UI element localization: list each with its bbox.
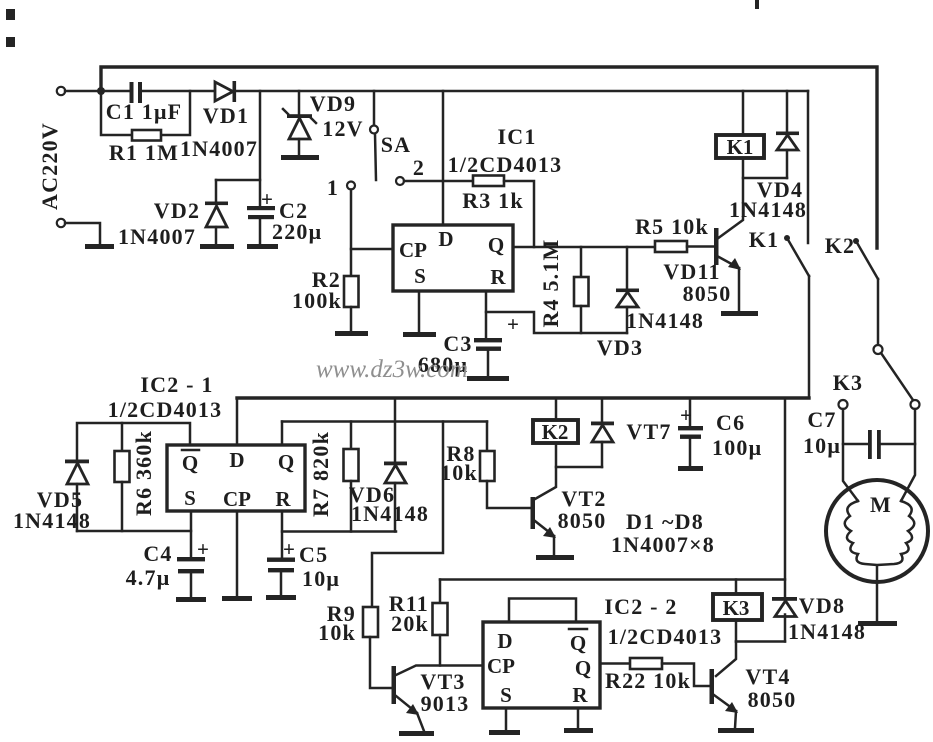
pin D of IC2-1 xyxy=(229,448,244,472)
svg-text:8050: 8050 xyxy=(683,281,732,306)
svg-text:C6: C6 xyxy=(716,410,745,435)
wire Qbar net of IC2-1 xyxy=(77,423,190,461)
svg-text:IC2 - 1: IC2 - 1 xyxy=(140,372,213,397)
svg-text:Q: Q xyxy=(488,233,504,257)
scan mark top-left 2 xyxy=(6,37,15,47)
switch K1 blade xyxy=(784,235,809,398)
label VD2 xyxy=(154,198,200,223)
capacitor C5 xyxy=(267,558,295,596)
resistor R6 xyxy=(115,423,130,531)
svg-text:D: D xyxy=(497,629,512,653)
svg-text:K3: K3 xyxy=(833,370,864,395)
label R2 100k xyxy=(292,267,342,313)
label 9013 xyxy=(421,691,470,716)
svg-text:10k: 10k xyxy=(318,620,356,645)
pin D of IC1 xyxy=(438,227,453,251)
wire D to Qbar jumper of IC2-2 xyxy=(509,599,576,623)
label C1 1uF xyxy=(106,99,183,124)
switch K1 fixed wire xyxy=(807,91,810,243)
resistor R5 xyxy=(655,241,714,252)
label 1/2CD4013 of IC2-1 xyxy=(108,397,223,422)
svg-text:100k: 100k xyxy=(292,288,342,313)
ground under C6 xyxy=(678,466,703,471)
ground under R of IC2-2 xyxy=(564,728,593,733)
svg-text:C1 1μF: C1 1μF xyxy=(106,99,183,124)
label C3 xyxy=(443,331,472,356)
svg-text:1N4148: 1N4148 xyxy=(788,619,866,644)
label 1N4148 for VD8 xyxy=(788,619,866,644)
label C6 100u xyxy=(712,410,762,460)
svg-text:1N4148: 1N4148 xyxy=(626,308,704,333)
motor M circle xyxy=(826,480,928,582)
svg-text:8050: 8050 xyxy=(748,687,797,712)
label + of C6 xyxy=(680,403,692,427)
ground under C5 xyxy=(266,595,296,600)
label IC1 xyxy=(497,124,536,149)
svg-text:220μ: 220μ xyxy=(272,219,322,244)
wire R pin of IC1 to C3 and R4 bottom xyxy=(486,291,627,338)
diode VD7 xyxy=(591,398,614,467)
label R7 820k xyxy=(308,431,333,517)
diode VD2 xyxy=(205,180,228,244)
svg-text:8050: 8050 xyxy=(558,508,607,533)
ground under motor xyxy=(858,621,897,626)
pin CP of IC1 xyxy=(399,238,427,262)
svg-text:R6 360k: R6 360k xyxy=(131,430,156,516)
wire K3 right contact to motor xyxy=(901,409,915,501)
svg-text:+: + xyxy=(507,312,519,336)
transistor VT3 emitter with arrow xyxy=(396,696,424,731)
label C4 xyxy=(143,541,172,566)
label 1N4148 for VD3 xyxy=(626,308,704,333)
label R6 360k xyxy=(131,430,156,516)
label 1N4148 for VD6 xyxy=(351,501,429,526)
resistor R3 xyxy=(473,176,504,187)
zener diode VD9 xyxy=(283,91,316,155)
label 1N4148 for VD5 xyxy=(13,508,91,533)
flip-flop IC2-2 box xyxy=(483,622,600,708)
svg-text:1N4007×8: 1N4007×8 xyxy=(611,532,715,557)
capacitor C2 xyxy=(247,180,275,244)
svg-text:10k: 10k xyxy=(440,460,478,485)
label VD4 xyxy=(757,177,803,202)
diode VD6 xyxy=(384,398,407,532)
watermark www.dz3w.com xyxy=(316,356,468,383)
transistor VT2 base bar xyxy=(531,497,536,529)
wire K1 coil bottom to VD4 xyxy=(743,177,787,180)
svg-text:CP: CP xyxy=(399,238,427,262)
transistor VT4 emitter with arrow xyxy=(714,695,738,728)
svg-text:Q: Q xyxy=(182,451,198,475)
label VT7 xyxy=(626,419,671,444)
label R11 20k xyxy=(389,591,429,636)
ground under S of IC2-2 xyxy=(489,730,520,735)
label + of C4 xyxy=(197,537,209,561)
pin Q of IC2-1 xyxy=(278,450,294,474)
ground under VD9 xyxy=(281,155,319,160)
diode VD5 xyxy=(65,460,89,532)
node pivot of K3 selector xyxy=(874,345,883,354)
label 10u for C7 xyxy=(803,433,841,458)
svg-text:1N4007: 1N4007 xyxy=(118,224,196,249)
wire S pin of IC1 to ground xyxy=(418,291,421,332)
svg-text:+: + xyxy=(680,403,692,427)
wire top AC rail xyxy=(101,67,877,248)
svg-text:VT7: VT7 xyxy=(626,419,671,444)
wire S net of IC2-1 xyxy=(77,511,191,557)
node junction at live input xyxy=(97,87,105,95)
svg-text:CP: CP xyxy=(223,487,251,511)
svg-text:20k: 20k xyxy=(391,611,429,636)
svg-text:S: S xyxy=(184,486,196,510)
pin R of IC2-2 xyxy=(572,683,588,707)
label + of C3 xyxy=(507,312,519,336)
svg-text:Q: Q xyxy=(575,656,591,680)
resistor R8 xyxy=(480,422,531,509)
label 8050 for VT2 xyxy=(558,508,607,533)
transistor VT3 collector xyxy=(396,666,483,676)
label VD11 xyxy=(663,259,720,284)
wire contact1 to CP and R2 xyxy=(351,190,393,277)
pin CP of IC2-2 xyxy=(487,654,515,678)
svg-text:VD9: VD9 xyxy=(310,91,356,116)
wire CP pin of IC2-1 to ground xyxy=(236,511,239,596)
pin S of IC2-1 xyxy=(184,486,196,510)
wire K3 coil supply line xyxy=(440,398,785,598)
capacitor C3 xyxy=(474,338,502,376)
svg-text:1/2CD4013: 1/2CD4013 xyxy=(108,397,223,422)
label VT2 xyxy=(561,486,606,511)
ground under C2 xyxy=(247,244,278,249)
svg-text:VT4: VT4 xyxy=(745,664,790,689)
capacitor C1 xyxy=(130,82,216,103)
label K3 switch xyxy=(833,370,864,395)
resistor R7 xyxy=(344,422,359,532)
svg-text:SA: SA xyxy=(381,132,412,157)
svg-text:1N4148: 1N4148 xyxy=(729,197,807,222)
svg-text:1N4148: 1N4148 xyxy=(351,501,429,526)
label IC2-2 xyxy=(604,594,677,619)
capacitor C7 xyxy=(843,430,915,459)
svg-text:1/2CD4013: 1/2CD4013 xyxy=(608,624,723,649)
terminal N (AC neutral input) xyxy=(57,219,65,227)
label 1/2CD4013 of IC2-2 xyxy=(608,624,723,649)
label D1~D8 xyxy=(626,509,704,534)
capacitor C6 xyxy=(678,398,703,466)
wire N terminal to ground xyxy=(65,223,100,244)
wire switched +12V rail xyxy=(237,396,809,399)
label 12V xyxy=(322,116,364,141)
motor winding xyxy=(845,501,915,565)
pin S of IC2-2 xyxy=(500,683,512,707)
svg-text:R1 1M: R1 1M xyxy=(109,140,179,165)
label 1N4148 for VD4 xyxy=(729,197,807,222)
svg-text:www.dz3w.com: www.dz3w.com xyxy=(316,356,468,383)
ground under C3 xyxy=(467,376,509,381)
svg-text:1: 1 xyxy=(327,175,339,200)
svg-text:C5: C5 xyxy=(299,542,328,567)
contact 1 of SA xyxy=(347,182,355,190)
wire R1 branch xyxy=(101,91,190,135)
wire K3 left contact to motor xyxy=(843,409,858,501)
resistor R2 xyxy=(344,276,359,331)
svg-text:1N4148: 1N4148 xyxy=(13,508,91,533)
relay coil K1 xyxy=(716,91,764,159)
svg-text:9013: 9013 xyxy=(421,691,470,716)
label + of C2 xyxy=(261,187,273,211)
svg-text:4.7μ: 4.7μ xyxy=(126,565,171,590)
ground under C4 xyxy=(176,597,206,602)
label AC220V xyxy=(37,122,62,210)
ground under VD2 xyxy=(200,244,234,249)
svg-text:R: R xyxy=(275,487,291,511)
scan mark top-left 1 xyxy=(6,9,15,20)
label 2 xyxy=(413,155,425,180)
resistor R1 xyxy=(132,130,161,141)
ground under R2 xyxy=(335,331,368,336)
wire R3 to Q node xyxy=(504,181,534,247)
svg-text:10μ: 10μ xyxy=(803,433,841,458)
svg-text:VD8: VD8 xyxy=(799,593,845,618)
svg-text:+: + xyxy=(197,537,209,561)
label R22 10k xyxy=(605,668,691,693)
scan mark top edge xyxy=(755,0,759,9)
svg-text:K2: K2 xyxy=(542,420,569,444)
label R3 1k xyxy=(462,188,524,213)
contact 2 of SA xyxy=(396,177,404,185)
ground under CP of IC2-1 xyxy=(222,596,252,601)
svg-text:R7 820k: R7 820k xyxy=(308,431,333,517)
label 8050 for VT4 xyxy=(748,687,797,712)
svg-text:Q: Q xyxy=(278,450,294,474)
label 1N4007 for VD2 xyxy=(118,224,196,249)
pin S of IC1 xyxy=(414,264,426,288)
svg-text:K1: K1 xyxy=(727,135,754,159)
transistor VT2 emitter with arrow xyxy=(535,521,556,555)
ground under VT3 xyxy=(399,731,434,736)
label 8050 for VT1 xyxy=(683,281,732,306)
contact K3 right xyxy=(911,400,920,409)
label VD8 xyxy=(799,593,845,618)
svg-text:CP: CP xyxy=(487,654,515,678)
relay coil K3 xyxy=(713,580,762,621)
ground under VT4 xyxy=(718,728,754,733)
label VD5 xyxy=(37,487,83,512)
pin R of IC1 xyxy=(490,265,506,289)
svg-text:VD1: VD1 xyxy=(203,103,249,128)
svg-text:K3: K3 xyxy=(723,596,750,620)
svg-text:R3 1k: R3 1k xyxy=(462,188,524,213)
label C2 220u xyxy=(272,198,322,244)
label R9 10k xyxy=(318,601,356,645)
pin Qbar of IC2-2 xyxy=(569,629,587,655)
transistor VT1 base bar xyxy=(714,228,719,265)
label R5 10k xyxy=(635,214,709,239)
resistor R9 xyxy=(363,607,392,688)
svg-text:R22 10k: R22 10k xyxy=(605,668,691,693)
wire K3 coil bottom to VT4 collector xyxy=(716,620,785,676)
terminal L (AC live input) xyxy=(57,87,65,95)
svg-text:Q: Q xyxy=(570,631,586,655)
switch SA pole xyxy=(370,91,378,180)
pin Q of IC1 xyxy=(488,233,504,257)
label VT3 xyxy=(420,669,465,694)
label C7 xyxy=(807,407,836,432)
svg-text:R: R xyxy=(572,683,588,707)
switch K3 blade xyxy=(881,353,913,400)
flip-flop IC2-1 box xyxy=(167,445,305,511)
wire R pin of IC2-2 to ground xyxy=(577,708,580,728)
wire S pin of IC2-2 to ground xyxy=(505,708,508,730)
op-amp/flipflop IC1 box xyxy=(393,225,513,291)
wire D pin of IC1 to +12V xyxy=(442,91,445,225)
svg-text:+: + xyxy=(261,187,273,211)
label SA xyxy=(381,132,412,157)
label R1 1M xyxy=(109,140,179,165)
label IC2-1 xyxy=(140,372,213,397)
svg-text:R4 5.1M: R4 5.1M xyxy=(538,238,563,327)
svg-text:S: S xyxy=(414,264,426,288)
label R4 5.1M xyxy=(538,238,563,327)
svg-text:100μ: 100μ xyxy=(712,435,762,460)
wire L terminal to junction xyxy=(65,90,131,93)
resistor R22 xyxy=(600,658,709,686)
wire motor to ground xyxy=(876,566,879,621)
wire D pin of IC2-1 to rail xyxy=(236,398,239,445)
transistor VT3 base bar xyxy=(392,666,397,704)
svg-text:S: S xyxy=(500,683,512,707)
label 1N4007x8 xyxy=(611,532,715,557)
switch K2 blade xyxy=(853,238,878,345)
label VD9 xyxy=(310,91,356,116)
wire Q output line of IC2-1 xyxy=(282,422,487,446)
svg-text:C4: C4 xyxy=(143,541,172,566)
transistor VT4 base bar xyxy=(710,669,715,704)
diode VD8 xyxy=(772,597,797,642)
resistor R4 xyxy=(574,247,589,333)
contact K3 left xyxy=(839,400,848,409)
pin D of IC2-2 xyxy=(497,629,512,653)
svg-text:C7: C7 xyxy=(807,407,836,432)
label 10u for C5 xyxy=(302,566,340,591)
label VD6 xyxy=(349,482,395,507)
svg-text:10μ: 10μ xyxy=(302,566,340,591)
label 1N4007 for VD1 xyxy=(180,136,258,161)
label M xyxy=(870,492,892,517)
wire K2 coil bottom to VT2 collector xyxy=(535,443,602,499)
wire rectifier branch down xyxy=(216,91,260,180)
wire +12V bus y91 xyxy=(236,90,808,93)
label 4.7u xyxy=(126,565,171,590)
transistor VT1 collector xyxy=(717,158,743,239)
label 680u xyxy=(418,352,468,377)
label 1 xyxy=(327,175,339,200)
svg-text:IC2 - 2: IC2 - 2 xyxy=(604,594,677,619)
svg-text:12V: 12V xyxy=(322,116,364,141)
svg-text:IC1: IC1 xyxy=(497,124,536,149)
ground under VT2 xyxy=(536,555,574,560)
diode VD3 xyxy=(616,247,639,333)
transistor VT1 emitter with arrow xyxy=(717,256,741,311)
svg-text:R: R xyxy=(490,265,506,289)
svg-text:K1: K1 xyxy=(749,227,780,252)
svg-text:1N4007: 1N4007 xyxy=(180,136,258,161)
label K1 switch xyxy=(749,227,780,252)
pin R of IC2-1 xyxy=(275,487,291,511)
svg-text:1/2CD4013: 1/2CD4013 xyxy=(448,152,563,177)
relay coil K2 xyxy=(533,398,578,444)
label VD3 xyxy=(597,335,643,360)
pin Q of IC2-2 xyxy=(575,656,591,680)
resistor R11 xyxy=(433,580,448,666)
svg-text:M: M xyxy=(870,492,892,517)
svg-text:2: 2 xyxy=(413,155,425,180)
svg-text:VD3: VD3 xyxy=(597,335,643,360)
wire Q of IC2-1 down to R9 xyxy=(372,422,443,608)
svg-text:K2: K2 xyxy=(825,233,856,258)
svg-text:R5 10k: R5 10k xyxy=(635,214,709,239)
svg-text:D: D xyxy=(229,448,244,472)
label VT4 xyxy=(745,664,790,689)
label K2 switch xyxy=(825,233,856,258)
svg-text:D: D xyxy=(438,227,453,251)
ground under VT1 xyxy=(721,311,758,316)
wire R pin of IC2-1 and C5 xyxy=(282,511,396,558)
wire Q output of IC1 xyxy=(513,246,655,249)
pin CP of IC2-1 xyxy=(223,487,251,511)
label 1/2CD4013 of IC1 xyxy=(448,152,563,177)
diode VD4 xyxy=(776,91,799,178)
ground under S of IC1 xyxy=(403,332,436,337)
label R8 xyxy=(440,441,478,485)
capacitor C4 xyxy=(177,557,205,597)
label +C5 xyxy=(283,537,328,567)
wire contact2 to R3 xyxy=(404,180,473,183)
pin Qbar of IC2-1 xyxy=(182,450,199,475)
ground under N terminal xyxy=(85,244,114,249)
svg-text:D1 ~D8: D1 ~D8 xyxy=(626,509,704,534)
label VD1 xyxy=(203,103,249,128)
svg-text:VD2: VD2 xyxy=(154,198,200,223)
svg-text:+: + xyxy=(283,537,295,561)
svg-text:AC220V: AC220V xyxy=(37,122,62,210)
diode VD1 xyxy=(215,81,236,102)
